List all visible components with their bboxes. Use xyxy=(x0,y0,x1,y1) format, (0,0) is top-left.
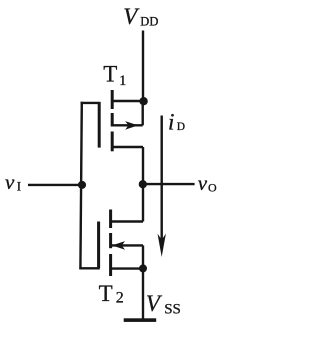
junction dot output node xyxy=(139,180,147,188)
svg-text:D: D xyxy=(177,121,185,133)
svg-text:V: V xyxy=(123,4,140,29)
wire T1 drain lead down to output node xyxy=(142,147,144,184)
svg-text:v: v xyxy=(198,171,208,195)
arrow T2 body (points left, NMOS) xyxy=(112,241,125,250)
transistor T2 channel segment (body) xyxy=(109,233,112,248)
wire T1 drain stub xyxy=(113,146,144,148)
wire T2 drain stub xyxy=(111,220,143,222)
net VSS rail bar xyxy=(124,318,157,322)
svg-text:i: i xyxy=(168,110,174,135)
wire VDD lead xyxy=(142,31,144,102)
transistor T1 label xyxy=(103,61,126,89)
wire VSS lead xyxy=(142,268,144,320)
svg-text:v: v xyxy=(5,170,15,194)
svg-text:I: I xyxy=(17,178,21,193)
junction dot T1 source / VDD xyxy=(139,97,147,105)
transistor T2 gate bar xyxy=(97,222,100,269)
svg-text:1: 1 xyxy=(119,73,126,89)
wire vO output xyxy=(143,183,195,185)
svg-text:O: O xyxy=(208,180,217,194)
node vI label xyxy=(5,170,21,194)
svg-text:DD: DD xyxy=(140,14,158,28)
junction dot T2 source / VSS xyxy=(139,264,147,272)
wire T1 gate loop (top horizontal) xyxy=(81,102,101,104)
current iD arrow line xyxy=(160,116,162,242)
wire T2 drain lead up to output node xyxy=(142,184,144,221)
transistor T2 channel segment (source side) xyxy=(109,254,112,276)
current iD label xyxy=(168,110,185,135)
wire T1 body tie (dot down to body stub) xyxy=(141,101,143,125)
wire T2 body stub xyxy=(112,244,143,246)
wire T2 gate loop (bottom horizontal) xyxy=(79,267,99,269)
net VDD label xyxy=(123,4,158,29)
wire vI input xyxy=(28,184,82,186)
svg-text:SS: SS xyxy=(164,302,181,318)
transistor T2 label xyxy=(99,281,124,306)
transistor T1 gate bar xyxy=(98,102,101,148)
arrow T1 body (points right, PMOS) xyxy=(125,121,138,130)
svg-text:T: T xyxy=(103,61,117,86)
wire T1 source stub to VDD xyxy=(112,100,144,102)
transistor T2 channel segment (drain side) xyxy=(109,210,112,229)
junction dot vI / gate rail xyxy=(78,181,86,189)
current iD arrowhead xyxy=(158,234,166,257)
svg-text:2: 2 xyxy=(116,290,124,307)
transistor T1 channel segment (drain side) xyxy=(111,90,114,109)
node vO label xyxy=(198,171,217,195)
svg-text:T: T xyxy=(99,281,113,306)
wire T2 body tie down to source xyxy=(142,245,144,268)
wire T2 source stub xyxy=(111,267,143,269)
wire T1 body stub xyxy=(113,124,143,126)
net VSS label xyxy=(146,291,181,318)
svg-text:V: V xyxy=(146,291,163,316)
wire left gate rail xyxy=(80,102,81,270)
transistor T1 channel segment (source side) xyxy=(111,132,114,152)
transistor T1 channel segment (body) xyxy=(111,113,114,127)
